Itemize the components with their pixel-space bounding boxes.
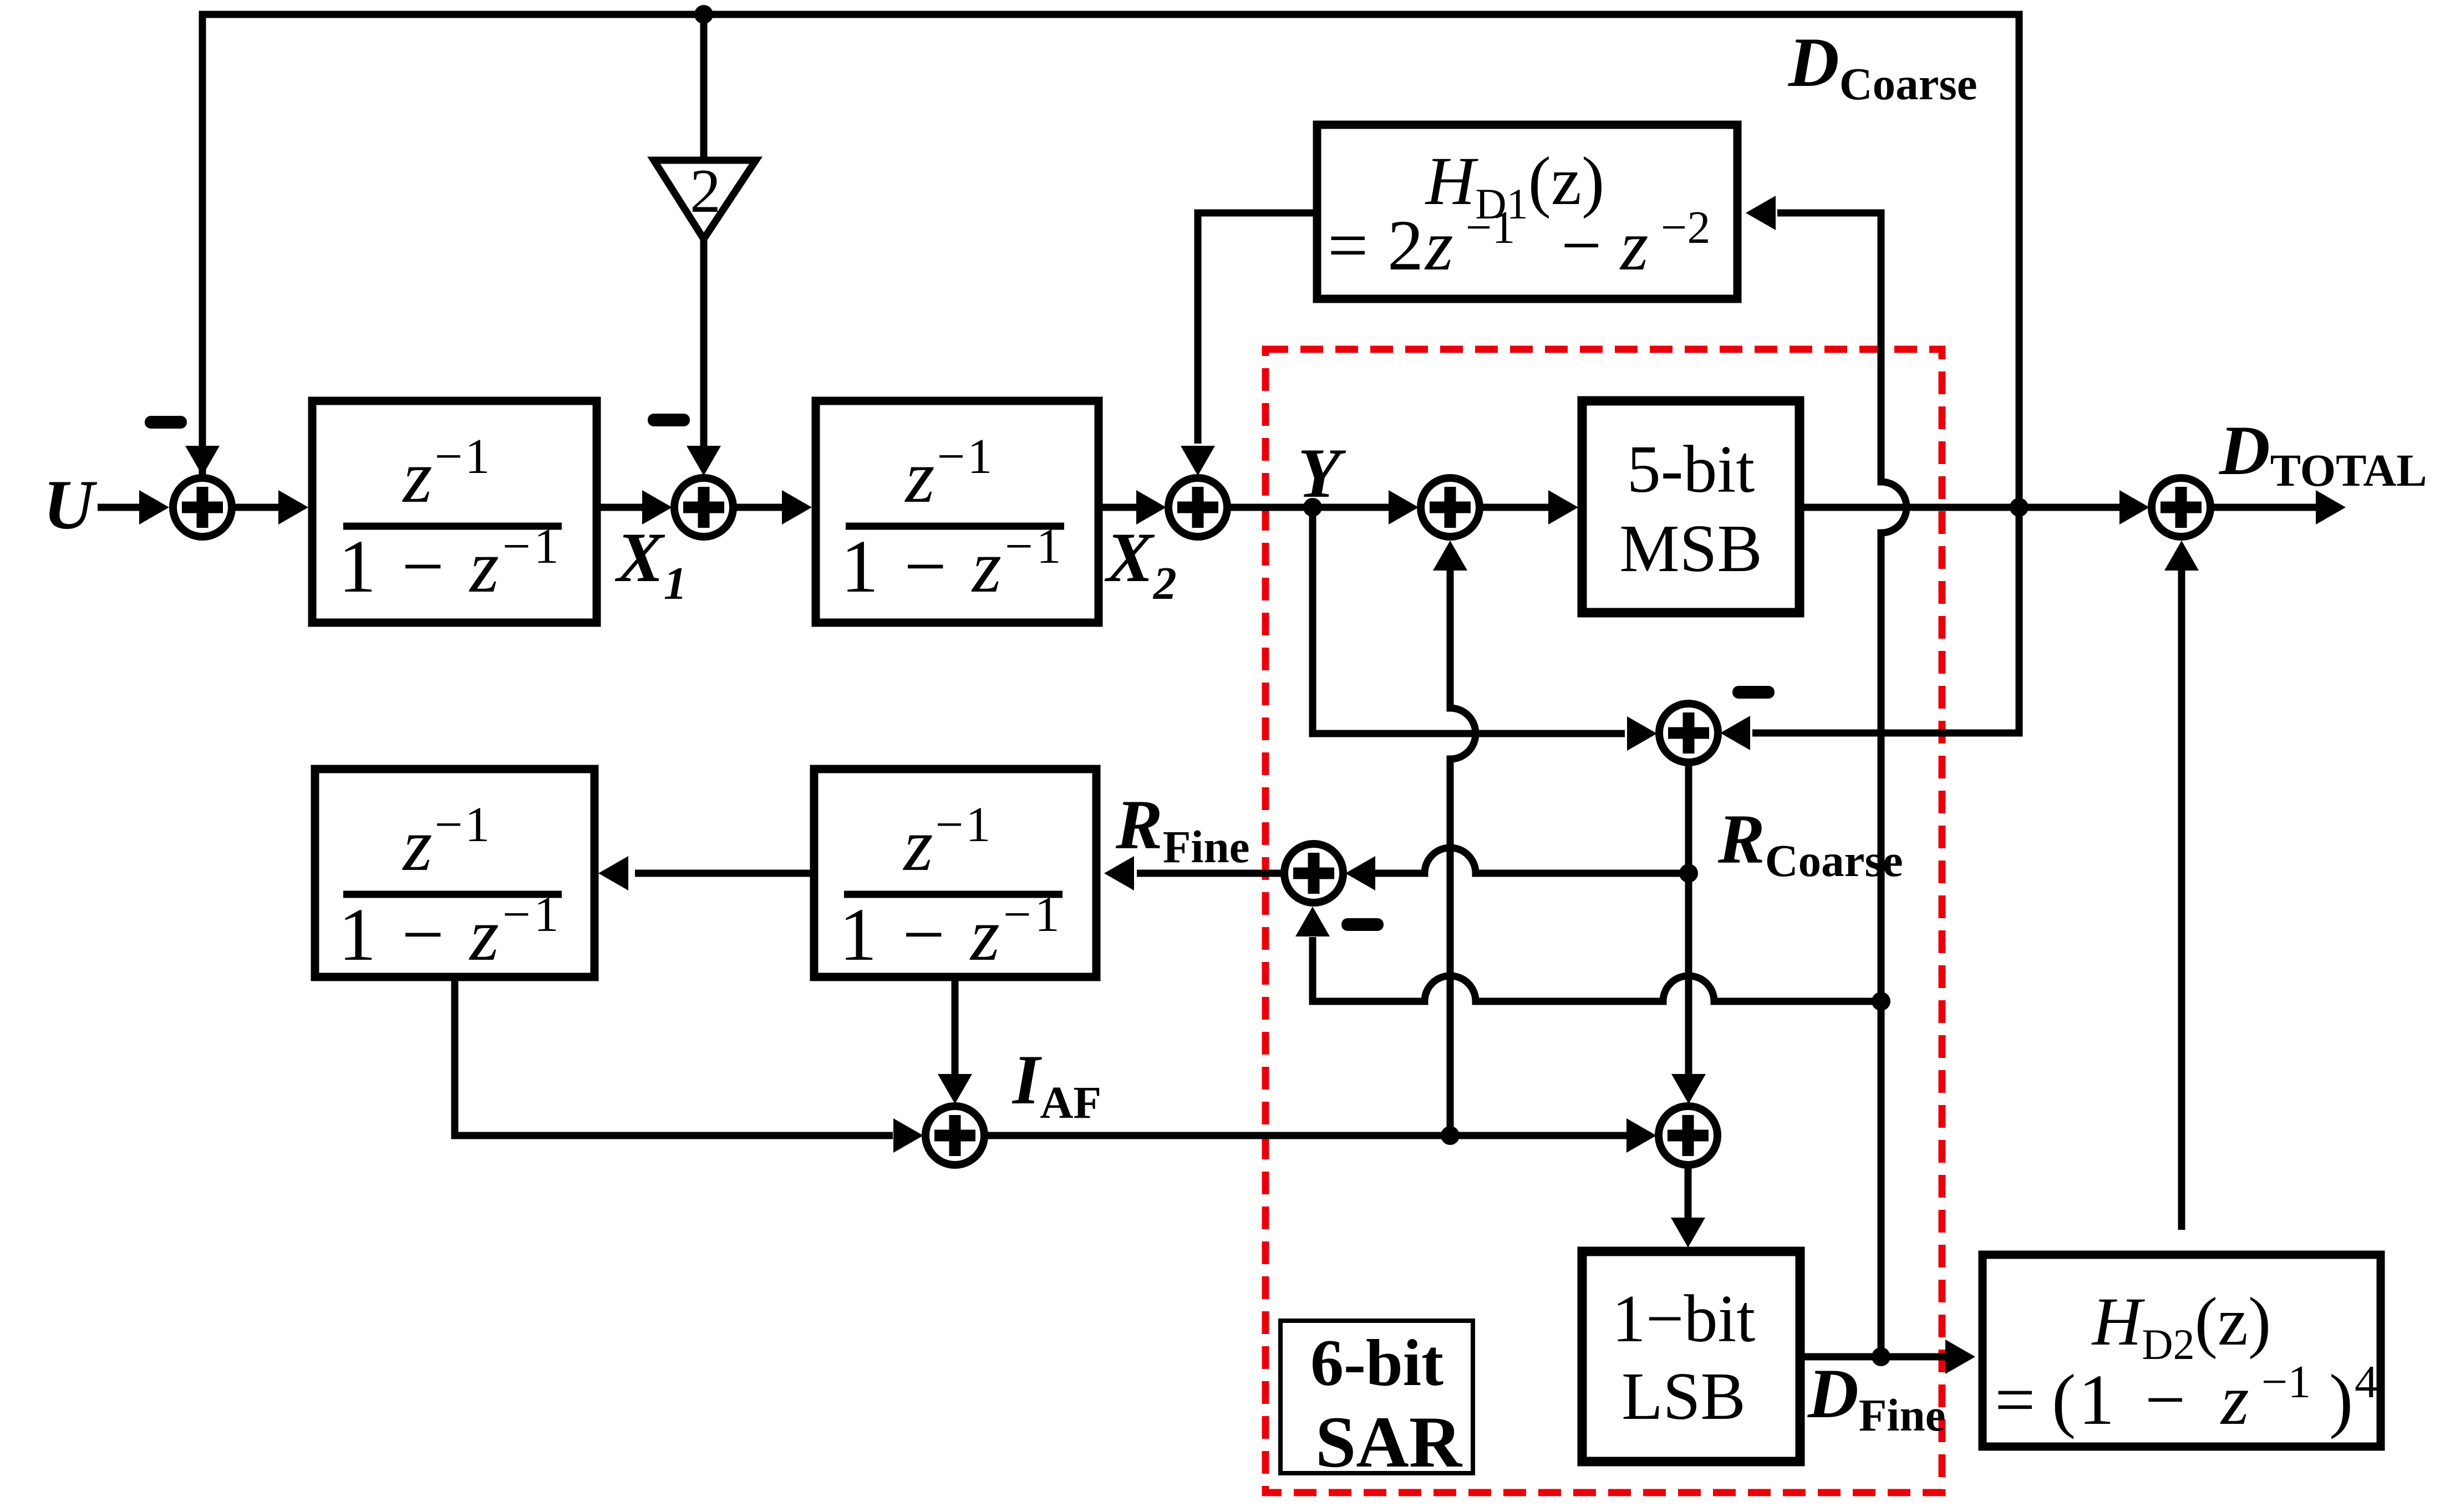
svg-text:SAR: SAR xyxy=(1315,1401,1463,1483)
svg-text:Y: Y xyxy=(1298,435,1346,512)
svg-text:MSB: MSB xyxy=(1619,511,1762,586)
svg-text:LSB: LSB xyxy=(1621,1359,1746,1434)
svg-text:2: 2 xyxy=(690,157,721,226)
svg-text:6-bit: 6-bit xyxy=(1310,1326,1443,1399)
svg-text:1−bit: 1−bit xyxy=(1612,1281,1756,1356)
svg-text:5-bit: 5-bit xyxy=(1627,432,1755,507)
svg-text:U: U xyxy=(43,466,98,544)
